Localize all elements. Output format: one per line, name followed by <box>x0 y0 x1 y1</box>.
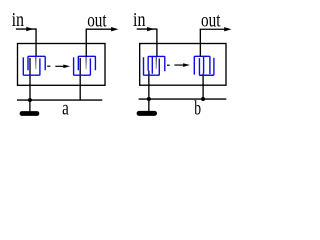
svg-text:out: out <box>201 8 220 31</box>
junction J2b middle tooth <box>203 56 205 73</box>
wire out vertical b <box>199 29 201 56</box>
junction J2a upper bracket <box>78 56 95 70</box>
junction J2a top electrode finger <box>85 57 87 70</box>
junction J2b lower bracket <box>199 58 213 75</box>
ground symbol a <box>20 111 40 116</box>
dashed link b <box>167 64 170 66</box>
ground bus b <box>139 98 227 100</box>
junction J2a lower bracket <box>74 57 91 75</box>
ground bus a <box>17 99 102 101</box>
wire input arrow a <box>16 27 36 31</box>
node out (label, circuit b) <box>201 8 220 31</box>
box b <box>140 44 226 86</box>
label b <box>194 97 201 119</box>
junction J1a upper bracket <box>28 56 45 70</box>
arrow between junctions b <box>174 63 190 67</box>
wire out vertical a <box>85 29 87 56</box>
box a <box>18 44 106 86</box>
junction J1b upper bracket <box>148 56 165 71</box>
ground symbol b <box>137 111 157 116</box>
junction J1b middle tooth <box>151 56 153 73</box>
node in (label, circuit a) <box>12 8 24 30</box>
svg-text:b: b <box>194 97 201 119</box>
junction node dot b2 <box>201 97 205 101</box>
junction J1a lower bracket <box>23 57 40 75</box>
junction J1a top electrode finger <box>35 57 37 70</box>
junction node dot a <box>28 98 32 102</box>
arrow between junctions a <box>55 64 70 68</box>
junction node dot b1 <box>147 97 151 101</box>
junction J1b lower bracket <box>144 57 160 75</box>
wire input arrow b <box>137 27 157 31</box>
svg-text:out: out <box>87 8 106 31</box>
svg-text:a: a <box>62 96 69 119</box>
junction J2b ground electrode wire <box>202 74 204 100</box>
junction J1a bottom electrode wire <box>29 58 31 100</box>
dashed link a <box>47 65 50 67</box>
wire output arrow a <box>86 27 119 31</box>
node in (label, circuit b) <box>133 8 145 30</box>
ground stub wire b <box>148 99 150 111</box>
ground stub wire a <box>29 100 31 111</box>
label a <box>62 96 69 119</box>
junction J2a bottom electrode wire <box>79 58 81 100</box>
junction J2b upper bracket <box>194 56 210 74</box>
svg-text:in: in <box>12 8 24 30</box>
wire output arrow b <box>200 27 232 31</box>
junction J1b top electrode finger <box>155 57 157 69</box>
svg-text:in: in <box>133 8 145 30</box>
junction J1b bottom electrode wire <box>148 71 150 100</box>
wire in vertical a <box>35 28 37 56</box>
node out (label, circuit a) <box>87 8 106 31</box>
wire in vertical b <box>156 28 158 56</box>
